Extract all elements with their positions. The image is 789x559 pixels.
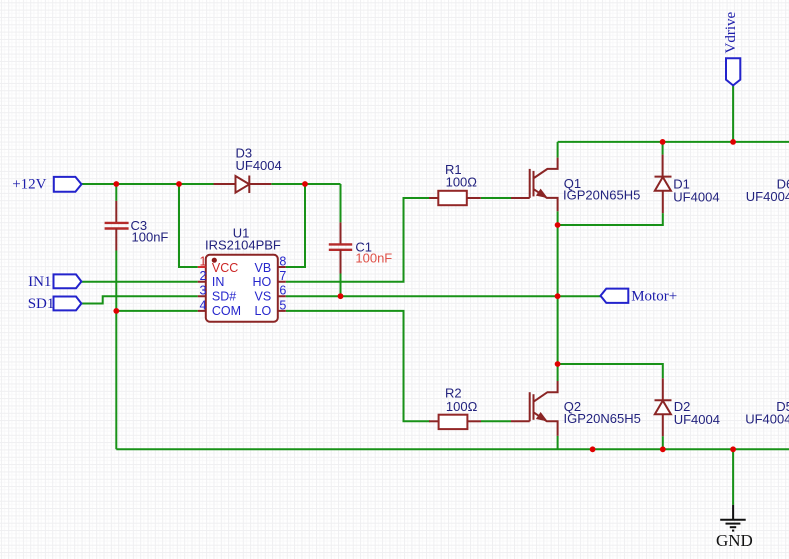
svg-text:UF4004: UF4004 (745, 411, 789, 426)
svg-text:8: 8 (279, 254, 286, 268)
svg-text:IGP20N65H5: IGP20N65H5 (564, 411, 641, 426)
svg-text:UF4004: UF4004 (673, 189, 719, 204)
svg-text:100Ω: 100Ω (446, 174, 478, 189)
svg-text:SD1: SD1 (28, 296, 55, 312)
svg-text:100nF: 100nF (132, 230, 169, 245)
svg-text:Motor+: Motor+ (631, 289, 677, 305)
svg-text:SD#: SD# (212, 290, 236, 304)
svg-text:IGP20N65H5: IGP20N65H5 (563, 188, 640, 203)
svg-text:GND: GND (716, 531, 753, 550)
svg-text:UF4004: UF4004 (746, 189, 789, 204)
svg-text:VCC: VCC (212, 261, 238, 275)
svg-text:6: 6 (279, 284, 286, 298)
svg-text:HO: HO (252, 275, 271, 289)
svg-text:100nF: 100nF (355, 251, 392, 266)
svg-text:+12V: +12V (12, 177, 46, 193)
svg-text:Vdrive: Vdrive (723, 12, 739, 54)
svg-text:IN1: IN1 (28, 274, 51, 290)
svg-text:3: 3 (200, 284, 207, 298)
svg-text:VB: VB (255, 261, 272, 275)
svg-text:4: 4 (200, 298, 207, 312)
svg-text:7: 7 (279, 269, 286, 283)
svg-text:UF4004: UF4004 (674, 412, 720, 427)
svg-text:100Ω: 100Ω (446, 399, 478, 414)
svg-text:IRS2104PBF: IRS2104PBF (205, 237, 281, 252)
svg-text:2: 2 (200, 269, 207, 283)
svg-text:VS: VS (255, 290, 272, 304)
svg-text:COM: COM (212, 304, 241, 318)
svg-text:IN: IN (212, 275, 225, 289)
svg-text:UF4004: UF4004 (236, 158, 282, 173)
svg-text:5: 5 (279, 298, 286, 312)
svg-text:1: 1 (200, 254, 207, 268)
svg-text:LO: LO (255, 304, 272, 318)
